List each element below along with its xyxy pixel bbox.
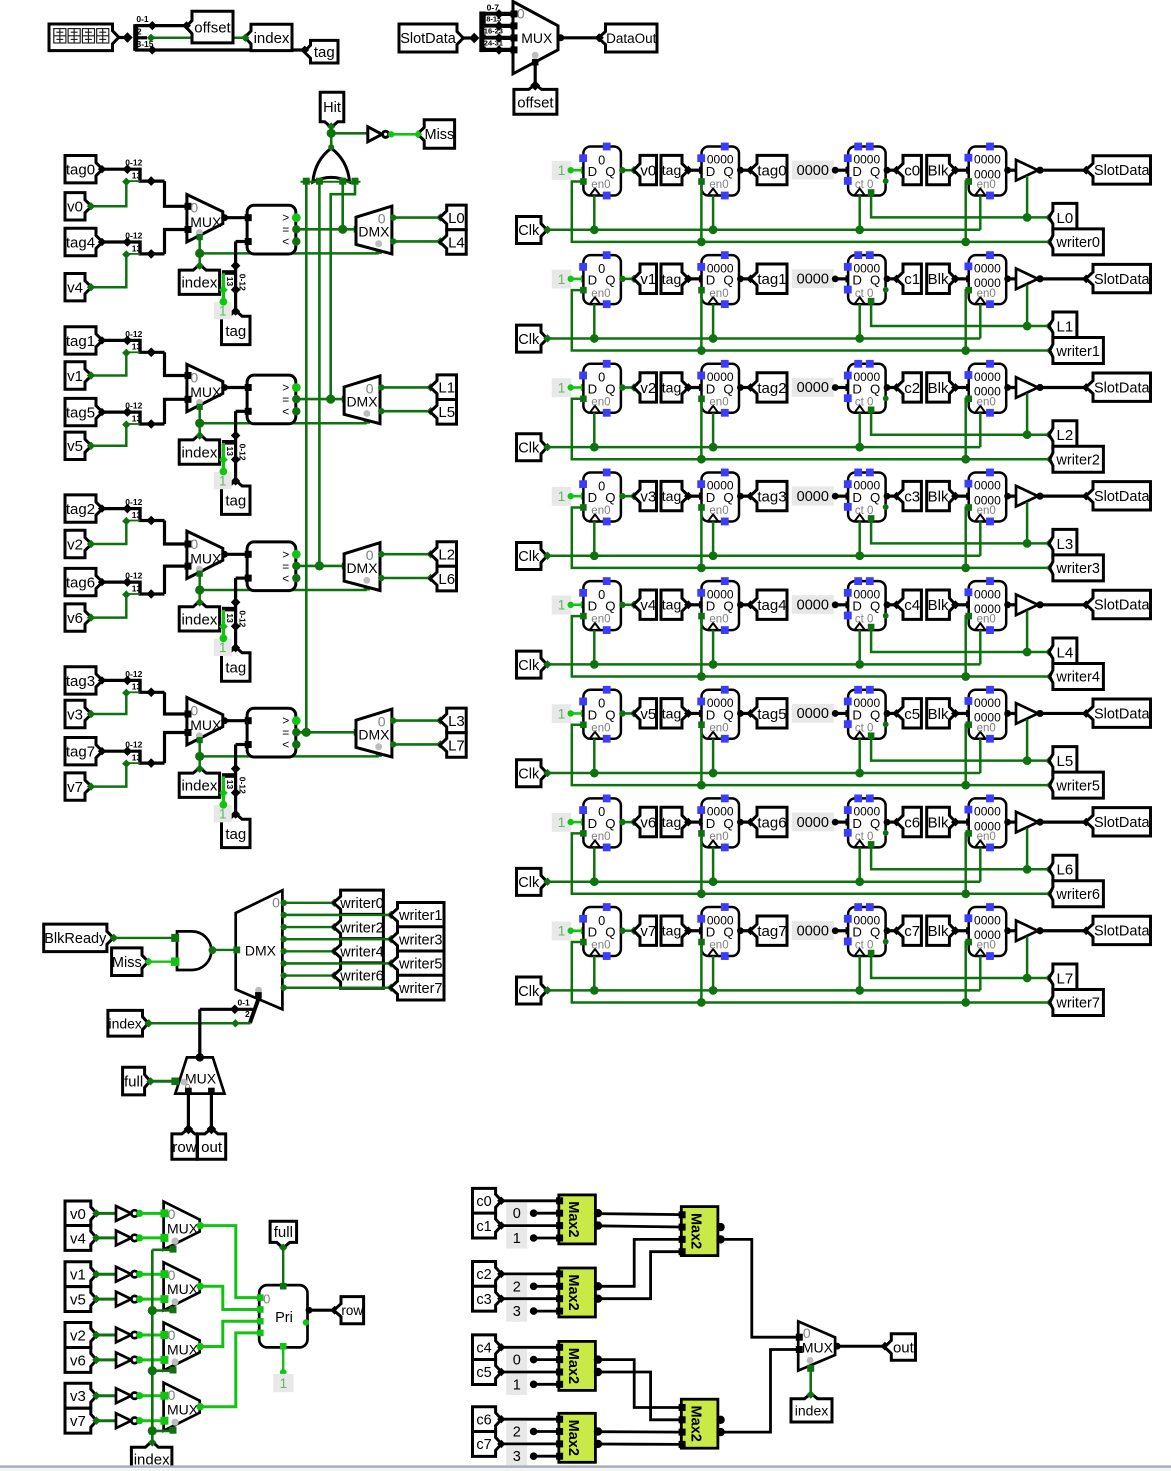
wires demux DMX8 to writer pins: [281, 900, 287, 906]
svg-text:13: 13: [132, 243, 142, 253]
svg-text:v7: v7: [70, 1413, 86, 1430]
wire const1 to register v4 D input (high): [571, 603, 584, 606]
bus const 0000 to counter c6: [835, 820, 848, 823]
splitter for tag2/v2 (0-12 / 13): [138, 507, 141, 521]
subcircuit Max2 E (upper): [681, 1207, 718, 1256]
svg-text:MUX: MUX: [190, 717, 222, 733]
svg-text:2: 2: [513, 1279, 521, 1295]
svg-text:0: 0: [190, 536, 198, 552]
clock line (row 3): [543, 552, 551, 560]
or gate output dot: [328, 144, 334, 150]
constant 1 (block 1): [214, 472, 232, 489]
svg-text:v1: v1: [67, 368, 83, 385]
wire v7 into splitter bit13: [92, 763, 127, 787]
svg-text:writer2: writer2: [339, 920, 384, 936]
wire c2 to Max2: [497, 1270, 505, 1278]
svg-text:13: 13: [132, 413, 142, 423]
svg-text:Q: Q: [870, 381, 880, 396]
wire dmx to L2: [378, 551, 384, 557]
output pin tag5: [750, 699, 787, 728]
svg-text:1: 1: [558, 598, 566, 613]
wire v4 to inverter: [97, 1236, 116, 1239]
svg-text:0: 0: [598, 370, 605, 385]
enable/writer line (row 5): [580, 721, 587, 728]
wire reg blk5 en to writer line: [965, 721, 972, 728]
wire inverter to Miss pin (high): [391, 133, 417, 136]
svg-text:D: D: [706, 925, 716, 940]
svg-text:<: <: [282, 738, 289, 752]
svg-text:c7: c7: [904, 923, 920, 940]
constant 0000 (row 5): [792, 704, 834, 723]
svg-text:en0: en0: [977, 396, 996, 408]
register blk2 (32-bit): [969, 364, 1007, 413]
demux DMX8 (writer select): [236, 890, 283, 1009]
svg-text:v2: v2: [67, 536, 83, 553]
wire reg tag0 en to writer line: [698, 178, 705, 185]
priority encoder Pri: [259, 1285, 307, 1347]
wire v4 into splitter bit13: [92, 254, 127, 287]
svg-text:writer0: writer0: [1055, 235, 1100, 251]
constant 0 (max2): [506, 1349, 527, 1370]
wire tag7 to splitter: [102, 750, 140, 753]
wire mux P0 to Pri in0 (high): [200, 1226, 260, 1298]
bus splitter to mux input 1 (block 3): [165, 733, 187, 764]
tri-state buffer (row 2): [1016, 377, 1038, 398]
constant 0000 (row 4): [792, 595, 834, 614]
bus Blk pin to register blk3: [951, 492, 960, 501]
wire splitter SP1 leg 3-15 to tag pin: [148, 45, 157, 54]
bus counter Q to pin c3: [884, 493, 891, 500]
wire OR vertical to block2 via elbow (x355 -> x330.7): [331, 185, 355, 400]
svg-text:Q: Q: [723, 925, 733, 940]
output pin writer1 (demux): [390, 903, 444, 928]
svg-text:full: full: [274, 1224, 293, 1241]
bus counter Q to pin c5: [884, 710, 891, 717]
input pin v6: [65, 604, 92, 631]
bus splitter to mux input 1 (block 0): [165, 230, 187, 254]
register row 0: constant 1: [552, 161, 572, 180]
tri-state buffer (row 0): [1016, 160, 1038, 181]
wire reg tag2 en to writer line: [698, 396, 705, 403]
svg-text:D: D: [588, 599, 598, 614]
svg-text:D: D: [588, 816, 598, 831]
svg-text:Max2: Max2: [565, 1274, 581, 1310]
input pin tag3: [65, 667, 103, 694]
constant 1 (max2): [506, 1374, 527, 1395]
svg-text:tag1: tag1: [66, 333, 95, 350]
wire register tag3 Q to pin tag3: [737, 493, 744, 500]
output pin index (top-left): [245, 24, 292, 50]
clock verticals (row 6): [593, 847, 596, 881]
input pin c6: [473, 1407, 502, 1432]
svg-text:offset: offset: [517, 94, 554, 111]
bus tag pin to register tag7: [684, 926, 693, 935]
svg-text:Clk: Clk: [518, 441, 540, 457]
wire const1 to register v2 D input (high): [571, 386, 584, 389]
svg-text:0-12: 0-12: [237, 444, 247, 461]
wire and gate to demux DMX8: [209, 946, 217, 954]
and gate: [177, 931, 211, 970]
svg-text:2: 2: [245, 1009, 250, 1019]
wire register v5 Q to pin v5: [619, 710, 625, 716]
svg-text:c2: c2: [904, 380, 920, 397]
demux DMX (block 2): [344, 543, 380, 591]
svg-text:1: 1: [219, 473, 227, 488]
svg-text:Q: Q: [723, 381, 733, 396]
svg-text:D: D: [588, 707, 598, 722]
bus register blk7 to buffer: [1004, 927, 1011, 934]
svg-text:13: 13: [225, 780, 235, 790]
svg-text:c0: c0: [904, 163, 920, 180]
wire comparator = output (block 2): [296, 565, 344, 568]
output pin writer7: [1046, 998, 1054, 1006]
wire reg blk4 en to writer line: [965, 613, 972, 620]
input pin Blk (row 3): [927, 481, 956, 510]
wire out pin to mux U6: [210, 1094, 213, 1129]
constant 0000 (row 0): [792, 161, 834, 180]
svg-text:Blk: Blk: [928, 814, 949, 831]
svg-text:SlotData: SlotData: [1094, 489, 1151, 505]
svg-text:tag: tag: [662, 162, 681, 178]
svg-text:Blk: Blk: [928, 163, 949, 180]
svg-text:Blk: Blk: [928, 597, 949, 614]
bus buffer to pin SlotData (row 2): [1036, 384, 1043, 391]
clock verticals (row 1): [593, 304, 596, 338]
svg-text:c1: c1: [476, 1219, 491, 1235]
svg-text:L5: L5: [438, 404, 455, 421]
svg-text:Q: Q: [605, 707, 615, 722]
wire reg tag7 en to writer line: [698, 939, 705, 946]
svg-text:D: D: [588, 925, 598, 940]
svg-text:D: D: [706, 164, 716, 179]
constant 2 (max2): [506, 1276, 527, 1297]
mux P outputs dots: [197, 1222, 204, 1229]
svg-text:v2: v2: [70, 1327, 86, 1344]
svg-text:Clk: Clk: [518, 984, 540, 1000]
svg-text:0-12: 0-12: [125, 158, 142, 168]
svg-text:v0: v0: [70, 1206, 86, 1223]
wire register tag2 Q to pin tag2: [737, 384, 744, 391]
bus tag pin to register tag0: [684, 166, 693, 175]
L0 line (row 0): [868, 189, 875, 196]
svg-text:en0: en0: [709, 396, 728, 408]
register blk0 (32-bit): [969, 147, 1007, 196]
splitter for tag1/v1 (0-12 / 13): [138, 339, 141, 353]
mux P2 (pri): [164, 1323, 200, 1371]
clock verticals (row 5): [593, 739, 596, 773]
svg-text:D: D: [588, 381, 598, 396]
wire dmx to L7: [390, 741, 396, 747]
splitter for tag7/v7 (0-12 / 13): [138, 750, 141, 764]
svg-text:1: 1: [558, 489, 566, 504]
svg-text:tag5: tag5: [757, 706, 786, 723]
output pin c0: [896, 155, 921, 184]
input pin Clk (row 4): [517, 651, 548, 678]
input pin full (pri): [270, 1221, 297, 1248]
wire const1 to register v6 D input (high): [571, 821, 584, 824]
svg-text:en0: en0: [591, 396, 610, 408]
svg-text:1: 1: [558, 706, 566, 721]
svg-text:0000: 0000: [974, 153, 1001, 167]
bus counter Q to pin c4: [884, 601, 891, 608]
svg-text:writer1: writer1: [1055, 344, 1100, 360]
bus mux output to comparator (block 2): [221, 551, 228, 558]
mux U1 (4:1 top): [513, 2, 558, 74]
bus tag pin to register tag4: [684, 600, 693, 609]
comparator (block 2): [247, 542, 296, 591]
input pin Miss (writers): [112, 948, 149, 976]
svg-text:en0: en0: [977, 288, 996, 300]
svg-text:0-12: 0-12: [125, 571, 142, 581]
bus const 0000 to counter c0: [835, 169, 848, 172]
clock line (row 2): [543, 443, 551, 451]
output pin v0: [634, 155, 657, 184]
bus const 0000 to counter c5: [835, 712, 848, 715]
wire register tag4 Q to pin tag4: [737, 601, 744, 608]
mux P2 select wire: [170, 1367, 177, 1374]
svg-text:D: D: [706, 490, 716, 505]
wire buffer enable to L4 line: [1026, 611, 1029, 652]
mux select wire and index junction (block 3): [197, 737, 203, 743]
svg-text:L0: L0: [448, 210, 465, 227]
constant 0 (max2): [506, 1203, 527, 1224]
input pin v3: [65, 700, 92, 727]
input pin v2 (pri): [65, 1323, 97, 1348]
register tag4: [702, 581, 740, 630]
tag splitter vertical (block 1): [234, 411, 237, 481]
svg-text:offset: offset: [194, 19, 231, 36]
bus register blk1 to buffer: [1004, 275, 1011, 282]
bus const 0000 to counter c3: [835, 495, 848, 498]
wire c3 to Max2: [497, 1295, 505, 1303]
input pin c1: [473, 1213, 502, 1238]
input pin tag (block 0): [222, 311, 251, 345]
svg-text:Blk: Blk: [928, 488, 949, 505]
inverter (Hit -> Miss): [368, 127, 382, 142]
svg-text:0-12: 0-12: [237, 274, 247, 291]
output pin SlotData (row 7): [1086, 916, 1151, 944]
constant 0000 (row 1): [792, 269, 834, 288]
svg-text:Q: Q: [870, 273, 880, 288]
wire c4 to Max2: [497, 1343, 505, 1351]
clock line (row 6): [543, 878, 551, 886]
wire constant 1 to splitter bit13 (block 1): [222, 443, 225, 471]
register tag3: [702, 472, 740, 521]
input pin out (writers): [198, 1128, 226, 1159]
svg-text:Clk: Clk: [518, 332, 540, 348]
svg-text:v7: v7: [67, 779, 83, 796]
svg-text:en0: en0: [709, 179, 728, 191]
svg-text:0-12: 0-12: [125, 401, 142, 411]
svg-text:c1: c1: [904, 271, 920, 288]
wire reg blk3 en to writer line: [965, 504, 972, 511]
svg-text:DMX: DMX: [245, 942, 277, 958]
wire Max2 F to mux U7: [718, 1350, 798, 1433]
svg-text:DataOut: DataOut: [606, 31, 657, 46]
svg-text:Max2: Max2: [688, 1406, 704, 1442]
svg-text:MUX: MUX: [190, 384, 222, 400]
wire tag5 to splitter: [102, 411, 140, 414]
input pin full (writers): [123, 1067, 151, 1095]
inverter for v0: [116, 1206, 131, 1221]
register tag1: [702, 255, 740, 304]
bus mux row output to splitter SP3: [198, 1009, 201, 1057]
wire tag0 to splitter: [102, 168, 140, 171]
mux U6 (row/out select, facing north): [175, 1057, 224, 1093]
inverter for v1: [116, 1267, 131, 1282]
svg-text:en0: en0: [591, 614, 610, 626]
svg-text:D: D: [588, 164, 598, 179]
svg-text:0-12: 0-12: [125, 669, 142, 679]
output pin writer2: [1046, 455, 1054, 463]
svg-text:v1: v1: [640, 271, 656, 288]
input pin v4 (pri): [65, 1225, 97, 1250]
svg-text:D: D: [588, 273, 598, 288]
svg-text:0: 0: [513, 1353, 521, 1369]
wire buffer enable to L5 line: [1026, 719, 1029, 760]
svg-text:L4: L4: [448, 234, 465, 251]
wire tag2 to splitter: [102, 507, 140, 510]
tri-state buffer (row 5): [1016, 703, 1038, 724]
svg-text:Max2: Max2: [565, 1348, 581, 1384]
tag splitter vertical (block 0): [234, 242, 237, 312]
wire register v7 Q to pin v7: [619, 928, 625, 934]
output pin writer3 (demux): [390, 927, 444, 952]
wire register v0 Q to pin v0: [619, 167, 625, 173]
svg-text:Max2: Max2: [565, 1201, 581, 1237]
svg-text:D: D: [852, 707, 862, 722]
wire v3 to inverter: [97, 1394, 116, 1397]
counter register c6: [848, 798, 886, 847]
wire splitter SP1 leg 0-1 to offset pin: [148, 21, 157, 30]
or gate input stubs: [303, 178, 310, 185]
input pin index (max2): [791, 1393, 832, 1422]
svg-text:tag5: tag5: [66, 405, 95, 422]
svg-text:1: 1: [513, 1377, 521, 1393]
input pin c4: [473, 1335, 502, 1360]
svg-text:Q: Q: [605, 164, 615, 179]
input pin v3 (pri): [65, 1383, 97, 1408]
comparator (block 3): [247, 708, 296, 757]
svg-text:Q: Q: [870, 490, 880, 505]
svg-text:c4: c4: [904, 597, 920, 614]
svg-text:MUX: MUX: [167, 1281, 199, 1297]
svg-text:0-1: 0-1: [136, 14, 149, 24]
svg-text:tag: tag: [662, 814, 681, 830]
wire tag6 to splitter: [102, 580, 140, 583]
constant 1 (pri): [273, 1374, 293, 1392]
svg-text:tag: tag: [225, 659, 246, 676]
svg-text:Q: Q: [870, 599, 880, 614]
wire c6 to Max2: [497, 1415, 505, 1423]
svg-text:0000: 0000: [974, 696, 1001, 710]
counter register c3: [848, 472, 886, 521]
wire v0 to inverter: [97, 1212, 116, 1215]
output pin c5: [896, 699, 921, 728]
mux U5 (block 3): [187, 698, 223, 745]
input pin tag (row 3): [661, 481, 689, 510]
bus buffer to pin SlotData (row 4): [1036, 601, 1043, 608]
svg-text:0: 0: [517, 6, 525, 22]
counter register c7: [848, 907, 886, 956]
clock verticals (row 4): [593, 630, 596, 664]
wire register tag5 Q to pin tag5: [737, 710, 744, 717]
svg-text:SlotData: SlotData: [1094, 380, 1151, 396]
L7 line (row 7): [868, 950, 875, 957]
svg-text:Blk: Blk: [928, 923, 949, 940]
inverter for v7: [116, 1413, 131, 1428]
svg-text:Q: Q: [870, 707, 880, 722]
svg-text:0: 0: [598, 913, 605, 928]
clock verticals (row 0): [593, 196, 596, 230]
input pin Blk (row 4): [927, 590, 956, 619]
input pin v6 (pri): [65, 1347, 97, 1372]
svg-text:en0: en0: [709, 722, 728, 734]
svg-text:1: 1: [280, 1376, 288, 1391]
clock verticals (row 2): [593, 413, 596, 447]
input pin tag (row 0): [661, 155, 689, 184]
svg-text:0: 0: [263, 1291, 270, 1306]
bus buffer to pin SlotData (row 3): [1036, 493, 1043, 500]
svg-text:Q: Q: [605, 816, 615, 831]
bus splitter to mux input 0 (block 0): [165, 181, 187, 206]
svg-text:tag: tag: [662, 705, 681, 721]
input pin v1: [65, 362, 92, 389]
svg-text:D: D: [852, 273, 862, 288]
clock line (row 7): [543, 986, 551, 994]
wire reg blk7 en to writer line: [965, 939, 972, 946]
bus buffer to pin SlotData (row 0): [1036, 167, 1043, 174]
svg-text:out: out: [201, 1139, 223, 1156]
wire v5 to inverter: [97, 1298, 116, 1301]
wire comparator = output (block 1): [296, 398, 344, 401]
svg-text:Pri: Pri: [275, 1310, 293, 1326]
wire constant 1 to splitter bit13 (block 0): [222, 273, 225, 301]
clock line (row 4): [543, 660, 551, 668]
svg-text:1: 1: [219, 640, 227, 655]
svg-text:<: <: [282, 571, 289, 585]
bus splitter to mux input 1 (block 1): [165, 399, 187, 424]
input pin c7: [473, 1431, 502, 1456]
output pin SlotData (row 3): [1086, 482, 1151, 510]
subcircuit Max2 F (lower): [681, 1399, 718, 1448]
input pin 字节地址 (byte address): [49, 24, 119, 51]
output pin L1: [1045, 322, 1053, 330]
svg-text:v4: v4: [70, 1230, 86, 1247]
bus tag pin to register tag5: [684, 709, 693, 718]
svg-text:L1: L1: [1057, 318, 1074, 335]
output pin index (block 0): [198, 253, 201, 265]
output pin tag0: [750, 155, 787, 184]
register v6 (valid bit): [583, 798, 621, 847]
wire buffer enable to L7 line: [1026, 937, 1029, 978]
svg-text:<: <: [282, 235, 289, 249]
svg-text:Q: Q: [605, 925, 615, 940]
svg-text:1: 1: [558, 380, 566, 395]
svg-text:en0: en0: [709, 614, 728, 626]
mux select wire and index junction (block 2): [197, 571, 203, 577]
wire tag4 to splitter: [102, 240, 140, 243]
output pin writer0 (demux): [334, 890, 384, 915]
svg-text:en0: en0: [591, 179, 610, 191]
constant 0000 (row 3): [792, 487, 834, 506]
output pin row (pri): [334, 1297, 364, 1324]
wire BlkReady to and gate: [110, 934, 118, 942]
output pin SlotData (row 6): [1086, 808, 1151, 836]
svg-text:tag6: tag6: [757, 814, 786, 831]
svg-text:tag0: tag0: [66, 162, 95, 179]
svg-text:0000: 0000: [974, 913, 1001, 927]
